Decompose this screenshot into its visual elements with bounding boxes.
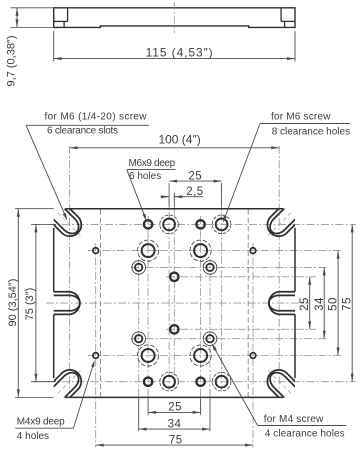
- M6x9 tapped hole 1: [144, 220, 152, 228]
- dim right-25 line: [309, 277, 311, 330]
- side view left end step: [67, 8, 69, 22]
- svg-text:75 (3″): 75 (3″): [24, 288, 36, 321]
- dim right-34 line: [323, 267, 325, 338]
- dim 115 line with arrows: [54, 58, 295, 60]
- M6x9 tapped hole 6: [196, 378, 204, 386]
- M6 counterbored clearance hole 1: [142, 244, 155, 257]
- M6x9 tapped hole 4: [170, 325, 178, 333]
- dim 100 line: [70, 147, 280, 149]
- M4 clearance hole 3: [135, 335, 142, 342]
- plate left edge: [53, 228, 55, 292]
- svg-text:6 clearance slots: 6 clearance slots: [47, 126, 118, 137]
- leader to top-left slot: [26, 125, 66, 218]
- side view plate outline: [54, 8, 295, 28]
- dim 9,7 line with arrows: [16, 8, 18, 28]
- corner slot bottom-right: [267, 370, 305, 408]
- leader to M6 tapped hole: [127, 170, 146, 218]
- M4 clearance hole 1: [135, 264, 142, 271]
- M6 clearance hole 4: [216, 376, 228, 388]
- M4 clearance hole 2: [206, 264, 213, 271]
- svg-text:4 clearance holes: 4 clearance holes: [265, 428, 345, 439]
- corner slot bottom-left: [43, 370, 81, 408]
- dim 115 extension lines: [53, 31, 55, 62]
- dim top 25 line: [169, 180, 222, 182]
- dim right-50 line: [337, 251, 339, 356]
- svg-text:25: 25: [299, 297, 311, 311]
- svg-text:115 (4,53″): 115 (4,53″): [146, 45, 214, 59]
- M4x9 tapped hole 1: [93, 248, 99, 254]
- svg-text:75: 75: [342, 297, 354, 311]
- plate bottom edge: [65, 396, 283, 398]
- M6 clearance hole 2: [216, 219, 228, 231]
- dim bottom-25 line: [148, 411, 201, 413]
- svg-text:M6x9 deep: M6x9 deep: [129, 158, 176, 169]
- plate top edge: [65, 208, 283, 210]
- svg-text:4 holes: 4 holes: [17, 431, 49, 442]
- vertical centrelines / grid: [69, 146, 71, 392]
- svg-text:50: 50: [328, 297, 340, 311]
- svg-text:2,5: 2,5: [186, 186, 203, 198]
- svg-text:for M6 screw: for M6 screw: [271, 111, 331, 122]
- M6x9 tapped hole 3: [170, 273, 178, 281]
- svg-text:34: 34: [168, 418, 182, 430]
- M6 clearance hole 1: [163, 219, 175, 231]
- dim 2,5 extensions: [168, 183, 170, 208]
- leader to M4 clearance hole: [213, 346, 257, 425]
- leader to M4 tapped hole: [73, 363, 93, 428]
- svg-text:100 (4″): 100 (4″): [158, 132, 200, 146]
- mid-right clearance slot: [269, 292, 295, 315]
- svg-text:25: 25: [188, 170, 202, 182]
- svg-text:90 (3,54″): 90 (3,54″): [7, 279, 19, 327]
- M6 counterbored clearance hole 2: [194, 244, 207, 257]
- dim 90 line: [17, 209, 19, 398]
- svg-text:6 holes: 6 holes: [129, 171, 161, 182]
- M6x9 tapped hole 5: [144, 378, 152, 386]
- dim 75-left extensions: [31, 223, 56, 225]
- dim bottom-34 line: [139, 428, 210, 430]
- side view right end step: [280, 8, 282, 22]
- hidden line bottom-relief right: [247, 209, 249, 396]
- M4 clearance hole 4: [206, 335, 213, 342]
- svg-text:9,7 (0,38″): 9,7 (0,38″): [6, 36, 18, 87]
- dim 2,5 arrows-outside: [161, 196, 170, 198]
- svg-text:for M6 (1/4-20) screw: for M6 (1/4-20) screw: [45, 111, 148, 122]
- M4x9 tapped hole 3: [93, 353, 99, 359]
- corner slot top-left: [43, 198, 81, 236]
- side view vertical centreline: [173, 2, 175, 34]
- corner slot top-right: [267, 198, 305, 236]
- svg-text:34: 34: [314, 297, 326, 311]
- svg-text:75: 75: [169, 434, 183, 446]
- svg-text:M4x9 deep: M4x9 deep: [17, 417, 65, 428]
- dim top 25 extension: [221, 183, 223, 208]
- dim 75-left line: [35, 224, 37, 381]
- mid-left clearance slot: [54, 292, 80, 315]
- dim 9,7 extension lines: [11, 7, 54, 9]
- leader to M6 clearance hole: [224, 124, 260, 220]
- corner slot diagonal centrelines: [56, 211, 81, 236]
- M4x9 tapped hole 2: [250, 248, 256, 254]
- svg-text:8 clearance holes: 8 clearance holes: [272, 127, 350, 138]
- dim bottom-75 line: [96, 444, 253, 446]
- dim 90 extensions: [15, 208, 54, 210]
- dim bottom-25 extensions: [147, 398, 149, 414]
- dim bottom-34 extensions: [138, 398, 140, 431]
- corner clearance slots group: [43, 198, 306, 408]
- dim right-75 line: [351, 224, 353, 381]
- M6 counterbored clearance hole 4: [194, 349, 207, 362]
- plate right edge: [294, 228, 296, 292]
- svg-text:for M4 screw: for M4 screw: [264, 414, 324, 425]
- M6x9 tapped hole 2: [196, 220, 204, 228]
- M6 clearance hole 3: [163, 376, 175, 388]
- hidden line bottom-relief left: [100, 209, 102, 396]
- horizontal centrelines / grid: [33, 223, 356, 225]
- svg-text:25: 25: [168, 402, 182, 414]
- M6 counterbored clearance hole 3: [142, 349, 155, 362]
- M4x9 tapped hole 4: [250, 353, 256, 359]
